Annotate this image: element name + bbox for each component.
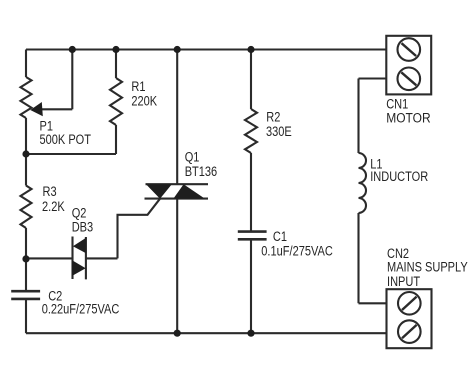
svg-text:R1: R1 [131,79,145,94]
svg-text:INPUT: INPUT [387,274,420,289]
svg-text:220K: 220K [131,94,157,109]
svg-text:R2: R2 [266,109,280,124]
svg-text:0.1uF/275VAC: 0.1uF/275VAC [261,243,333,258]
svg-text:500K POT: 500K POT [40,132,92,147]
svg-text:MOTOR: MOTOR [386,109,430,125]
svg-text:2.2K: 2.2K [42,199,65,214]
svg-text:DB3: DB3 [72,219,94,234]
svg-text:BT136: BT136 [185,164,218,179]
svg-text:0.22uF/275VAC: 0.22uF/275VAC [42,301,120,316]
svg-text:INDUCTOR: INDUCTOR [370,169,428,184]
svg-text:MAINS SUPPLY: MAINS SUPPLY [387,259,468,274]
svg-text:Q1: Q1 [185,149,200,164]
svg-text:R3: R3 [43,184,57,199]
svg-text:C1: C1 [273,229,287,244]
svg-text:330E: 330E [266,124,292,139]
